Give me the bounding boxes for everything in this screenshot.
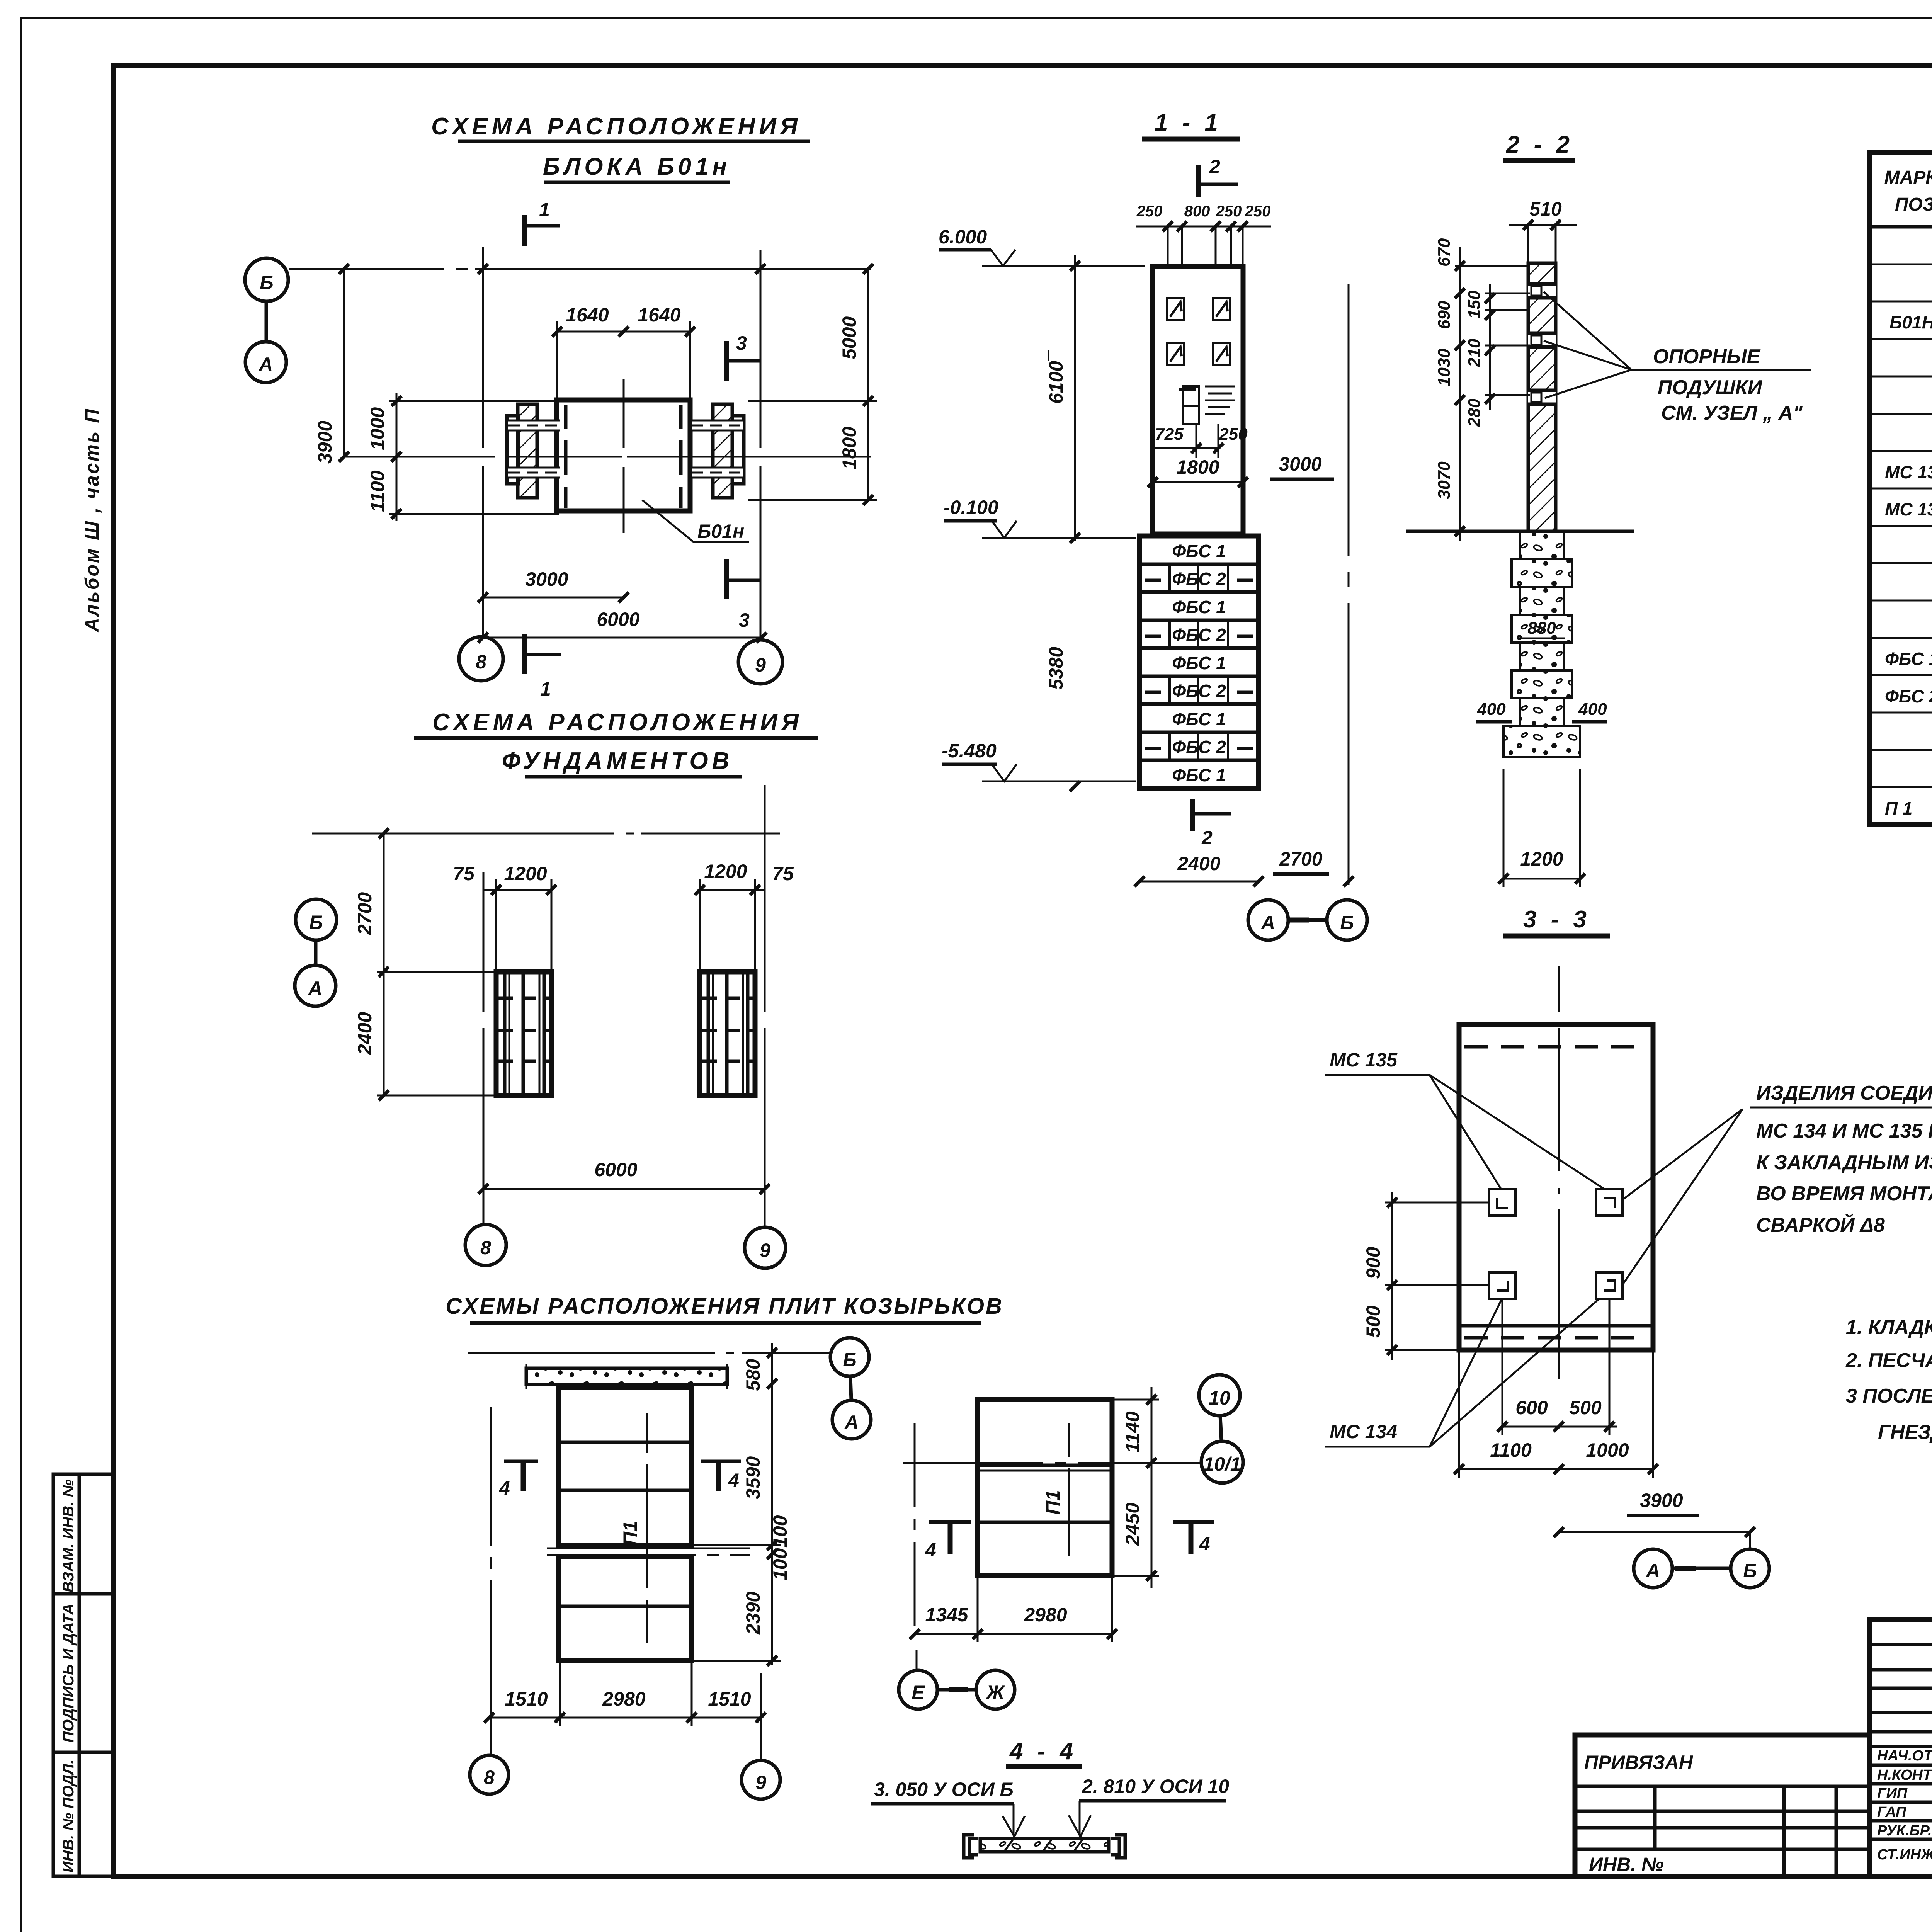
svg-text:10/1: 10/1 — [1203, 1453, 1241, 1475]
svg-text:250: 250 — [1219, 425, 1248, 444]
lower plate — [558, 1556, 692, 1661]
dim 3000 bottom — [483, 597, 624, 599]
header text — [1884, 167, 1932, 215]
body text — [1885, 237, 1932, 818]
svg-text:Б: Б — [843, 1349, 856, 1371]
svg-text:3. 050 У ОСИ Б: 3. 050 У ОСИ Б — [874, 1779, 1014, 1800]
svg-text:1: 1 — [540, 678, 551, 700]
svg-text:СВАРКОЙ Δ8: СВАРКОЙ Δ8 — [1756, 1213, 1885, 1236]
svg-text:Б: Б — [309, 912, 323, 933]
svg-text:МАРКА: МАРКА — [1884, 167, 1932, 188]
svg-text:1. КЛАДКУ БЕТОННЫХ БЛОКОВ: 1. КЛАДКУ БЕТОННЫХ БЛОКОВ ВЕСТИ НА РАСТВ… — [1846, 1316, 1932, 1338]
axis Б circle — [830, 1338, 869, 1376]
svg-text:СТ.ИНЖ.: СТ.ИНЖ. — [1877, 1847, 1932, 1863]
svg-text:ВО ВРЕМЯ МОНТАЖА РУЧНОЙ: ВО ВРЕМЯ МОНТАЖА РУЧНОЙ — [1756, 1182, 1932, 1205]
svg-text:Б01Н: Б01Н — [1889, 312, 1932, 332]
svg-text:2980: 2980 — [1024, 1604, 1067, 1626]
svg-text:210: 210 — [1465, 338, 1484, 367]
section mark 3 bottom — [724, 559, 729, 599]
svg-text:2450: 2450 — [1122, 1503, 1143, 1546]
svg-text:СМ. УЗЕЛ „ А": СМ. УЗЕЛ „ А" — [1661, 402, 1803, 424]
left attachment boxes — [53, 408, 113, 1876]
svg-text:Б: Б — [1743, 1560, 1757, 1582]
axis 8 line — [483, 872, 485, 1224]
svg-text:ИНВ. № ПОДЛ.: ИНВ. № ПОДЛ. — [60, 1760, 77, 1873]
svg-text:2. 810 У ОСИ 10: 2. 810 У ОСИ 10 — [1082, 1776, 1229, 1797]
wall 1-1 — [1153, 267, 1243, 534]
axis Б circle — [296, 899, 337, 940]
axis Б line — [468, 1352, 831, 1354]
svg-text:500: 500 — [1569, 1397, 1602, 1418]
svg-text:4: 4 — [925, 1539, 936, 1561]
svg-text:6.000: 6.000 — [939, 226, 987, 248]
svg-text:3590: 3590 — [742, 1456, 764, 1499]
svg-text:6100¯: 6100¯ — [1045, 350, 1067, 404]
leader to Опорные подушки — [1544, 292, 1811, 398]
centerline A — [344, 456, 871, 458]
wall strip hatched — [1528, 263, 1556, 531]
svg-text:580: 580 — [742, 1359, 764, 1391]
svg-text:1 - 1: 1 - 1 — [1155, 109, 1222, 136]
svg-text:1510: 1510 — [708, 1688, 751, 1710]
svg-text:3 - 3: 3 - 3 — [1523, 906, 1590, 933]
axis Б line — [289, 268, 871, 270]
dim 6000 bottom — [483, 637, 762, 639]
right pier hatched — [713, 404, 732, 498]
windows row2 — [1167, 343, 1230, 365]
bottom dim — [915, 1633, 1112, 1635]
svg-text:9: 9 — [755, 1772, 766, 1793]
svg-text:Б: Б — [260, 272, 273, 293]
svg-text:-0.100: -0.100 — [944, 497, 998, 518]
upper plate — [558, 1388, 692, 1545]
svg-text:3000: 3000 — [525, 568, 568, 590]
svg-text:75: 75 — [453, 863, 475, 884]
section marks 4 upper — [504, 1460, 538, 1463]
svg-text:2390: 2390 — [742, 1592, 764, 1635]
svg-text:1200: 1200 — [704, 861, 747, 882]
svg-text:К ЗАКЛАДНЫМ ИЗДЕЛИЯМ БЛОКА: К ЗАКЛАДНЫМ ИЗДЕЛИЯМ БЛОКА — [1756, 1151, 1932, 1174]
svg-text:3 ПОСЛЕ ОКОНЧАНИЯ МОНТАЖА: 3 ПОСЛЕ ОКОНЧАНИЯ МОНТАЖА И ПРИВАРКИ СОЕ… — [1846, 1384, 1932, 1407]
svg-text:280: 280 — [1465, 398, 1484, 427]
dim 1200/75 right top — [700, 889, 765, 891]
axis 9 line — [760, 250, 762, 639]
svg-text:3000: 3000 — [1279, 453, 1321, 475]
svg-text:8: 8 — [480, 1237, 491, 1259]
dim 6000 bottom — [483, 1188, 765, 1190]
joint lines — [547, 1548, 750, 1555]
row lines — [1870, 264, 1932, 787]
axis 9 circle — [738, 640, 782, 684]
plate outline — [1459, 1024, 1653, 1350]
axis left vertical — [914, 1423, 916, 1626]
svg-text:ОПОРНЫЕ: ОПОРНЫЕ — [1653, 345, 1761, 368]
svg-text:10: 10 — [1209, 1387, 1230, 1409]
svg-text:1100: 1100 — [1490, 1439, 1532, 1461]
svg-text:400: 400 — [1578, 700, 1607, 719]
axis 9 line — [764, 785, 766, 1227]
svg-text:ПОДУШКИ: ПОДУШКИ — [1658, 376, 1763, 399]
left foundation block — [496, 972, 551, 1095]
svg-text:НАЧ.ОТП: НАЧ.ОТП — [1877, 1748, 1932, 1764]
svg-text:250: 250 — [1245, 203, 1271, 220]
svg-text:670: 670 — [1435, 238, 1454, 267]
block centerline — [623, 379, 625, 533]
svg-text:100: 100 — [769, 1548, 791, 1580]
svg-text:ФБС 2: ФБС 2 — [1172, 569, 1226, 589]
svg-text:ИЗДЕЛИЯ СОЕДИНИТЕЛЬНЫЕ: ИЗДЕЛИЯ СОЕДИНИТЕЛЬНЫЕ — [1756, 1082, 1932, 1104]
axis 10/1 line — [903, 1462, 1201, 1464]
block Б01н — [556, 400, 690, 511]
svg-text:5000: 5000 — [838, 316, 860, 359]
svg-text:400: 400 — [1477, 700, 1506, 719]
svg-text:ФБС 1: ФБС 1 — [1172, 765, 1226, 785]
dim 1800 / 3000 — [1153, 481, 1243, 483]
svg-text:2980: 2980 — [602, 1688, 645, 1710]
svg-text:П 1: П 1 — [1885, 798, 1912, 818]
svg-text:75: 75 — [772, 863, 794, 884]
dim 5000/1800 right — [867, 269, 869, 500]
svg-text:1200: 1200 — [504, 863, 547, 884]
svg-text:ФБС 2: ФБС 2 — [1172, 625, 1226, 645]
pads in wall — [1528, 284, 1556, 404]
svg-text:1800: 1800 — [1176, 456, 1219, 478]
tie rods left — [508, 420, 560, 478]
svg-text:ФБС 2: ФБС 2 — [1172, 737, 1226, 757]
svg-text:100: 100 — [769, 1515, 791, 1548]
svg-text:9: 9 — [755, 654, 766, 676]
svg-text:МС 134 И МС 135 ПРИВАРИТЬ: МС 134 И МС 135 ПРИВАРИТЬ — [1756, 1120, 1932, 1142]
svg-text:250: 250 — [1136, 203, 1163, 220]
dims 725/250 — [1155, 447, 1218, 449]
svg-text:1800: 1800 — [838, 427, 860, 469]
svg-text:СХЕМЫ РАСПОЛОЖЕНИЯ ПЛИТ КОЗЫРЬ: СХЕМЫ РАСПОЛОЖЕНИЯ ПЛИТ КОЗЫРЬКОВ — [446, 1294, 1003, 1319]
svg-text:МС 134: МС 134 — [1885, 462, 1932, 482]
svg-text:МС 134: МС 134 — [1330, 1421, 1397, 1442]
svg-text:690: 690 — [1435, 301, 1454, 329]
svg-text:600: 600 — [1515, 1397, 1548, 1418]
svg-text:ФБС 1: ФБС 1 — [1172, 709, 1226, 729]
dim 1640+1640 — [557, 331, 690, 333]
svg-text:2: 2 — [1209, 156, 1220, 177]
section mark 1 top — [522, 215, 527, 246]
dim 6100 left — [1074, 255, 1076, 541]
svg-text:Н.КОНТР.: Н.КОНТР. — [1877, 1767, 1932, 1783]
svg-text:ФБС 1: ФБС 1 — [1885, 649, 1932, 669]
svg-text:А: А — [258, 354, 273, 375]
ФБС2 row joints + arrows — [1145, 564, 1253, 760]
svg-text:4: 4 — [728, 1469, 739, 1491]
svg-text:ФБС 2: ФБС 2 — [1885, 686, 1932, 706]
dims 1100/1000 — [1459, 1468, 1653, 1470]
svg-text:ФБС 1: ФБС 1 — [1172, 597, 1226, 617]
section mark 2 bottom — [1190, 799, 1195, 831]
ground line — [1406, 530, 1634, 533]
svg-text:2400: 2400 — [1177, 853, 1220, 874]
svg-text:1100: 1100 — [367, 470, 388, 512]
circles А Б — [1248, 900, 1288, 940]
Привязан table — [1575, 1735, 1869, 1876]
top small dims 250 800 250 250 — [1136, 226, 1271, 228]
axis 9 — [760, 1673, 762, 1759]
header bottom — [1870, 225, 1932, 229]
svg-text:ПРИВЯЗАН: ПРИВЯЗАН — [1584, 1752, 1693, 1773]
svg-text:2700: 2700 — [1279, 848, 1322, 870]
svg-text:800: 800 — [1184, 203, 1210, 220]
svg-text:ФБС 1: ФБС 1 — [1172, 541, 1226, 561]
tie rods right — [692, 420, 743, 478]
svg-text:4 - 4: 4 - 4 — [1009, 1738, 1077, 1765]
svg-text:П1: П1 — [1042, 1490, 1064, 1515]
right dim line — [771, 1343, 773, 1665]
svg-text:1140: 1140 — [1122, 1411, 1143, 1453]
axis 9 circle — [745, 1227, 786, 1268]
axis 8 circle — [459, 637, 503, 681]
dim 2400 — [1139, 881, 1259, 883]
concrete lintel strip — [526, 1368, 727, 1384]
right scheme — [978, 1400, 1112, 1576]
svg-text:500: 500 — [1362, 1305, 1384, 1338]
svg-text:2700: 2700 — [354, 892, 376, 935]
svg-text:А: А — [844, 1412, 859, 1433]
axis А circle — [832, 1400, 871, 1439]
dim 1000/1100 — [396, 393, 398, 521]
svg-text:ПОДПИСЬ И ДАТА: ПОДПИСЬ И ДАТА — [60, 1604, 77, 1743]
svg-text:Б: Б — [1340, 912, 1354, 934]
svg-text:150: 150 — [1465, 290, 1484, 319]
svg-text:ИНВ. №: ИНВ. № — [1589, 1854, 1663, 1875]
circle 10/1 — [1201, 1441, 1243, 1483]
left dim 900/500 — [1391, 1192, 1393, 1360]
svg-text:510: 510 — [1529, 198, 1562, 220]
svg-text:6000: 6000 — [597, 609, 639, 630]
svg-text:ГАП: ГАП — [1877, 1804, 1906, 1820]
svg-text:ВЗАМ. ИНВ. №: ВЗАМ. ИНВ. № — [60, 1480, 77, 1593]
right dim — [1151, 1387, 1153, 1588]
left signature rows — [1877, 1748, 1932, 1863]
svg-text:2: 2 — [1201, 827, 1213, 849]
svg-text:4: 4 — [1199, 1533, 1210, 1554]
svg-text:БЛОКА Б01н: БЛОКА Б01н — [543, 153, 731, 180]
axis 8 — [490, 1407, 492, 1754]
svg-text:А: А — [1260, 912, 1275, 934]
section marks 4 — [929, 1520, 971, 1524]
lower embed with level lines — [1179, 386, 1235, 424]
left pier hatched — [518, 404, 537, 498]
svg-text:СХЕМА РАСПОЛОЖЕНИЯ: СХЕМА РАСПОЛОЖЕНИЯ — [431, 113, 801, 140]
wire connector — [314, 940, 318, 965]
dim 75/1200 left top — [483, 889, 551, 891]
axis Б line — [312, 833, 780, 835]
svg-text:2400: 2400 — [354, 1012, 376, 1055]
svg-text:Ж: Ж — [985, 1682, 1005, 1703]
svg-text:6000: 6000 — [594, 1159, 637, 1180]
svg-text:880: 880 — [1527, 619, 1556, 638]
axis A circle — [295, 965, 336, 1006]
Е Ж circles — [916, 1650, 918, 1670]
svg-text:ПОЗ.: ПОЗ. — [1895, 194, 1932, 215]
svg-text:1000: 1000 — [367, 407, 388, 450]
svg-text:П1: П1 — [619, 1521, 641, 1546]
svg-text:А: А — [308, 978, 322, 999]
svg-text:1510: 1510 — [505, 1688, 548, 1710]
svg-text:ГИП: ГИП — [1877, 1786, 1908, 1802]
svg-text:3: 3 — [739, 609, 750, 631]
svg-text:-5.480: -5.480 — [942, 740, 997, 762]
svg-text:3900: 3900 — [1640, 1490, 1683, 1511]
svg-text:8: 8 — [484, 1767, 495, 1788]
section mark 3 top — [724, 341, 729, 381]
centerline П1 — [646, 1413, 648, 1643]
П1 centerline — [1068, 1423, 1070, 1556]
svg-text:3: 3 — [736, 332, 747, 354]
svg-text:3070: 3070 — [1435, 461, 1454, 499]
svg-text:Е: Е — [912, 1682, 925, 1703]
svg-text:ФБС 1: ФБС 1 — [1172, 653, 1226, 673]
svg-text:1345: 1345 — [925, 1604, 968, 1626]
windows row1 — [1167, 298, 1230, 320]
svg-text:Б01н: Б01н — [697, 520, 744, 542]
axis 8 line — [482, 247, 484, 636]
dim 3900 — [343, 269, 345, 457]
svg-text:1030: 1030 — [1435, 349, 1454, 386]
svg-text:250: 250 — [1216, 203, 1242, 220]
svg-text:ГНЕЗДА В КИРПИЧНЫХ СТЕНАХ З: ГНЕЗДА В КИРПИЧНЫХ СТЕНАХ ЗАПОЛНИТЬ БЕТО… — [1878, 1421, 1932, 1444]
section mark 2 top — [1196, 165, 1201, 197]
svg-text:5380: 5380 — [1045, 647, 1067, 690]
svg-text:МС 135: МС 135 — [1885, 499, 1932, 519]
svg-text:4: 4 — [499, 1477, 510, 1499]
dim 1200 — [1503, 878, 1580, 880]
right foundation block — [700, 972, 755, 1095]
svg-text:900: 900 — [1362, 1247, 1384, 1279]
svg-text:МС 135: МС 135 — [1330, 1049, 1398, 1071]
svg-text:А: А — [1645, 1560, 1660, 1582]
embed squares МС — [1489, 1189, 1622, 1299]
svg-text:1000: 1000 — [1586, 1439, 1629, 1461]
svg-text:1200: 1200 — [1520, 848, 1563, 870]
circle 10 — [1199, 1375, 1240, 1416]
left dim column — [1459, 247, 1461, 541]
svg-text:1640: 1640 — [566, 304, 609, 326]
wire connector Б-А — [265, 302, 268, 341]
svg-text:8: 8 — [476, 651, 486, 673]
foundation stack — [1139, 536, 1259, 788]
svg-text:Альбом Ш , часть П: Альбом Ш , часть П — [81, 408, 103, 633]
svg-text:725: 725 — [1155, 425, 1184, 444]
centerline — [1558, 966, 1560, 1379]
axis A circle — [245, 342, 286, 383]
svg-text:1: 1 — [539, 199, 550, 221]
svg-text:СХЕМА РАСПОЛОЖЕНИЯ: СХЕМА РАСПОЛОЖЕНИЯ — [432, 709, 803, 736]
leader Б01н — [642, 500, 693, 542]
bottom dims 600/500 — [1501, 1426, 1617, 1428]
svg-text:ФБС 2: ФБС 2 — [1172, 681, 1226, 701]
bottom dim — [489, 1717, 761, 1719]
svg-text:ФУНДАМЕНТОВ: ФУНДАМЕНТОВ — [502, 748, 733, 774]
axis Б circle — [245, 258, 288, 301]
dim 2700/2400 left — [383, 833, 385, 1095]
svg-text:РУК.БР.: РУК.БР. — [1877, 1823, 1932, 1839]
svg-text:3900: 3900 — [314, 421, 336, 464]
foundation pier 2-2 — [1503, 531, 1580, 757]
svg-text:1640: 1640 — [638, 304, 680, 326]
connector — [850, 1376, 851, 1400]
axis 8 circle — [465, 1225, 506, 1265]
text block Изделия соединительные — [1756, 1082, 1932, 1236]
left rows — [1869, 1645, 1932, 1839]
svg-text:9: 9 — [760, 1240, 770, 1261]
svg-text:2 - 2: 2 - 2 — [1506, 131, 1573, 158]
axis Б vertical right — [1348, 284, 1350, 885]
svg-text:2. ПЕСЧАНАЯ ПОДГОТОВКА ПОД: 2. ПЕСЧАНАЯ ПОДГОТОВКА ПОД БЛОКАМИ УСЛОВ… — [1845, 1349, 1932, 1372]
section mark 1 bottom — [522, 634, 527, 674]
extension lines left — [389, 400, 559, 402]
circles А Б — [1634, 1549, 1672, 1588]
